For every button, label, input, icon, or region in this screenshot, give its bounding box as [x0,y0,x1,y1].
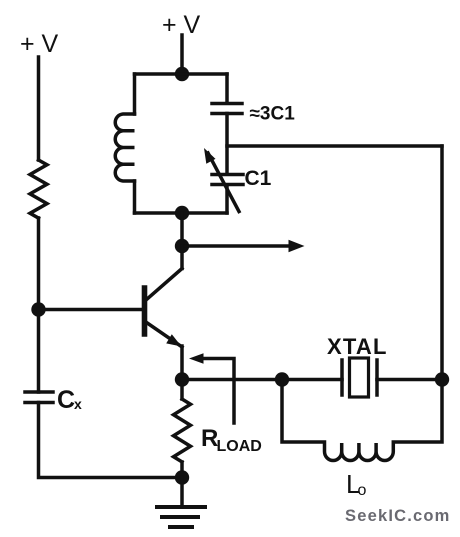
wire: right rail down to crystal node [440,146,444,380]
wire: left +V lead down to bias resistor [37,57,41,160]
node: ground junction dot [175,470,189,484]
wire: ground stub [180,478,184,508]
svg-text:≈3C1: ≈3C1 [250,104,296,125]
wire: Cx to bottom rail [39,403,183,478]
resistor (bias, unlabeled) [30,160,47,218]
crystal XTAL: right plate [375,360,379,395]
svg-text:o: o [358,482,367,499]
wire: tank left spine bottom [133,181,137,213]
crystal XTAL: left plate [340,360,344,395]
transistor Q (NPN): collector lead [147,269,183,300]
wire: bias resistor to base node [37,218,41,310]
wire: between 3C1 and C1 (tap point) [225,114,229,175]
resistor RLOAD [174,380,191,478]
wire: tank bottom to output node [180,213,184,246]
wire: feedback tap from between caps [227,144,442,148]
node: tank top junction dot [175,67,189,81]
svg-text:x: x [74,396,82,412]
svg-text:XTAL: XTAL [327,334,388,359]
wire: output node down to transistor collector [180,246,184,269]
ground symbol [157,507,205,527]
node: crystal right junction dot [435,372,449,386]
svg-text:SeekIC.com: SeekIC.com [345,507,451,525]
wire: top +V lead to tank top node [180,35,184,74]
svg-text:C1: C1 [245,167,272,190]
wire: tank left spine top [133,74,137,114]
node: emitter junction dot [175,372,189,386]
capacitor Cx [25,392,53,403]
output arrow [182,244,290,248]
wire: base node down to capacitor Cx [37,310,41,393]
wire: emitter to emitter node [180,346,184,380]
node: tank bottom junction dot [175,206,189,220]
wire: base wire to transistor [39,308,143,312]
capacitor ~3C1 [212,104,242,114]
crystal XTAL: body rectangle [350,358,369,397]
inductor Lo (parallel with crystal) [282,380,442,461]
annotation arrow into emitter node [203,359,234,424]
svg-text:+ V: + V [20,30,59,58]
wire: tank bottom rail [135,211,228,215]
node: crystal left junction dot [275,372,289,386]
node: base node junction dot [31,302,45,316]
svg-text:LOAD: LOAD [217,438,262,455]
wire: tank right branch top [225,74,229,103]
svg-text:C: C [57,386,75,414]
wire: C1 to tank bottom [225,185,229,213]
transistor Q (NPN): base bar [142,288,148,334]
wire: emitter node to crystal branch [182,378,442,382]
node: output junction dot [175,239,189,253]
inductor (tank, unlabeled) [115,114,134,181]
variable capacitor C1 plates [212,175,243,185]
variable capacitor C1 arrow [208,153,239,212]
transistor Q (NPN): emitter lead with arrow [147,323,183,348]
wire: tank top rail [135,72,228,76]
